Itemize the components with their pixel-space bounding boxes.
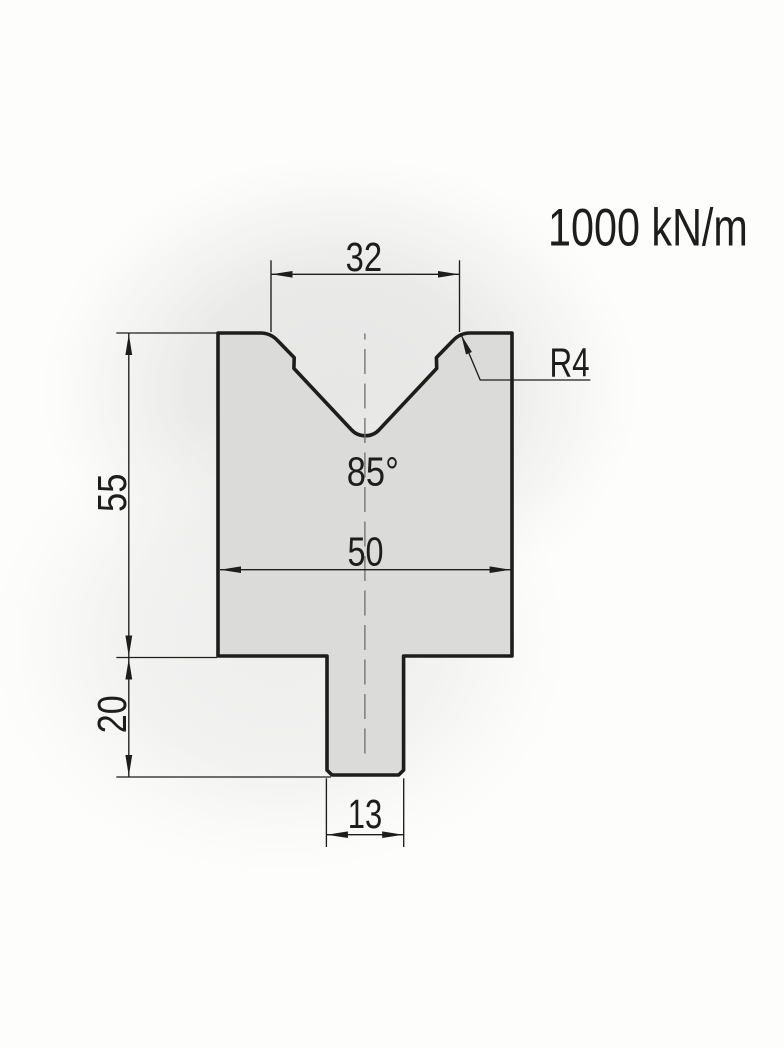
- dimension 20: dimension line + arrows: [128, 658, 130, 777]
- dimension 32: dimension line + arrows: [271, 273, 460, 275]
- dimension 55: extension lines: [116, 332, 217, 334]
- svg-text:13: 13: [348, 791, 383, 837]
- R4 leader line: [461, 335, 590, 380]
- svg-text:32: 32: [346, 235, 382, 280]
- svg-text:85°: 85°: [347, 449, 399, 494]
- dimension 13: dimension line + arrows: [326, 834, 403, 836]
- dimension 13: extension lines: [325, 778, 327, 847]
- dimension 32: extension lines: [270, 260, 272, 332]
- svg-text:55: 55: [89, 474, 134, 512]
- svg-text:1000 kN/m: 1000 kN/m: [548, 198, 748, 257]
- svg-text:20: 20: [89, 695, 134, 733]
- svg-text:R4: R4: [550, 340, 590, 386]
- svg-text:50: 50: [347, 529, 383, 574]
- die body profile (V-die cross-section): [218, 333, 512, 775]
- centerline: [364, 334, 366, 759]
- R4 leader arrow: [461, 335, 472, 355]
- dimension 50: dimension line + arrows: [220, 569, 511, 571]
- dimension 20: bottom extension line: [116, 776, 331, 778]
- dimension 55: dimension line + arrows: [128, 334, 130, 658]
